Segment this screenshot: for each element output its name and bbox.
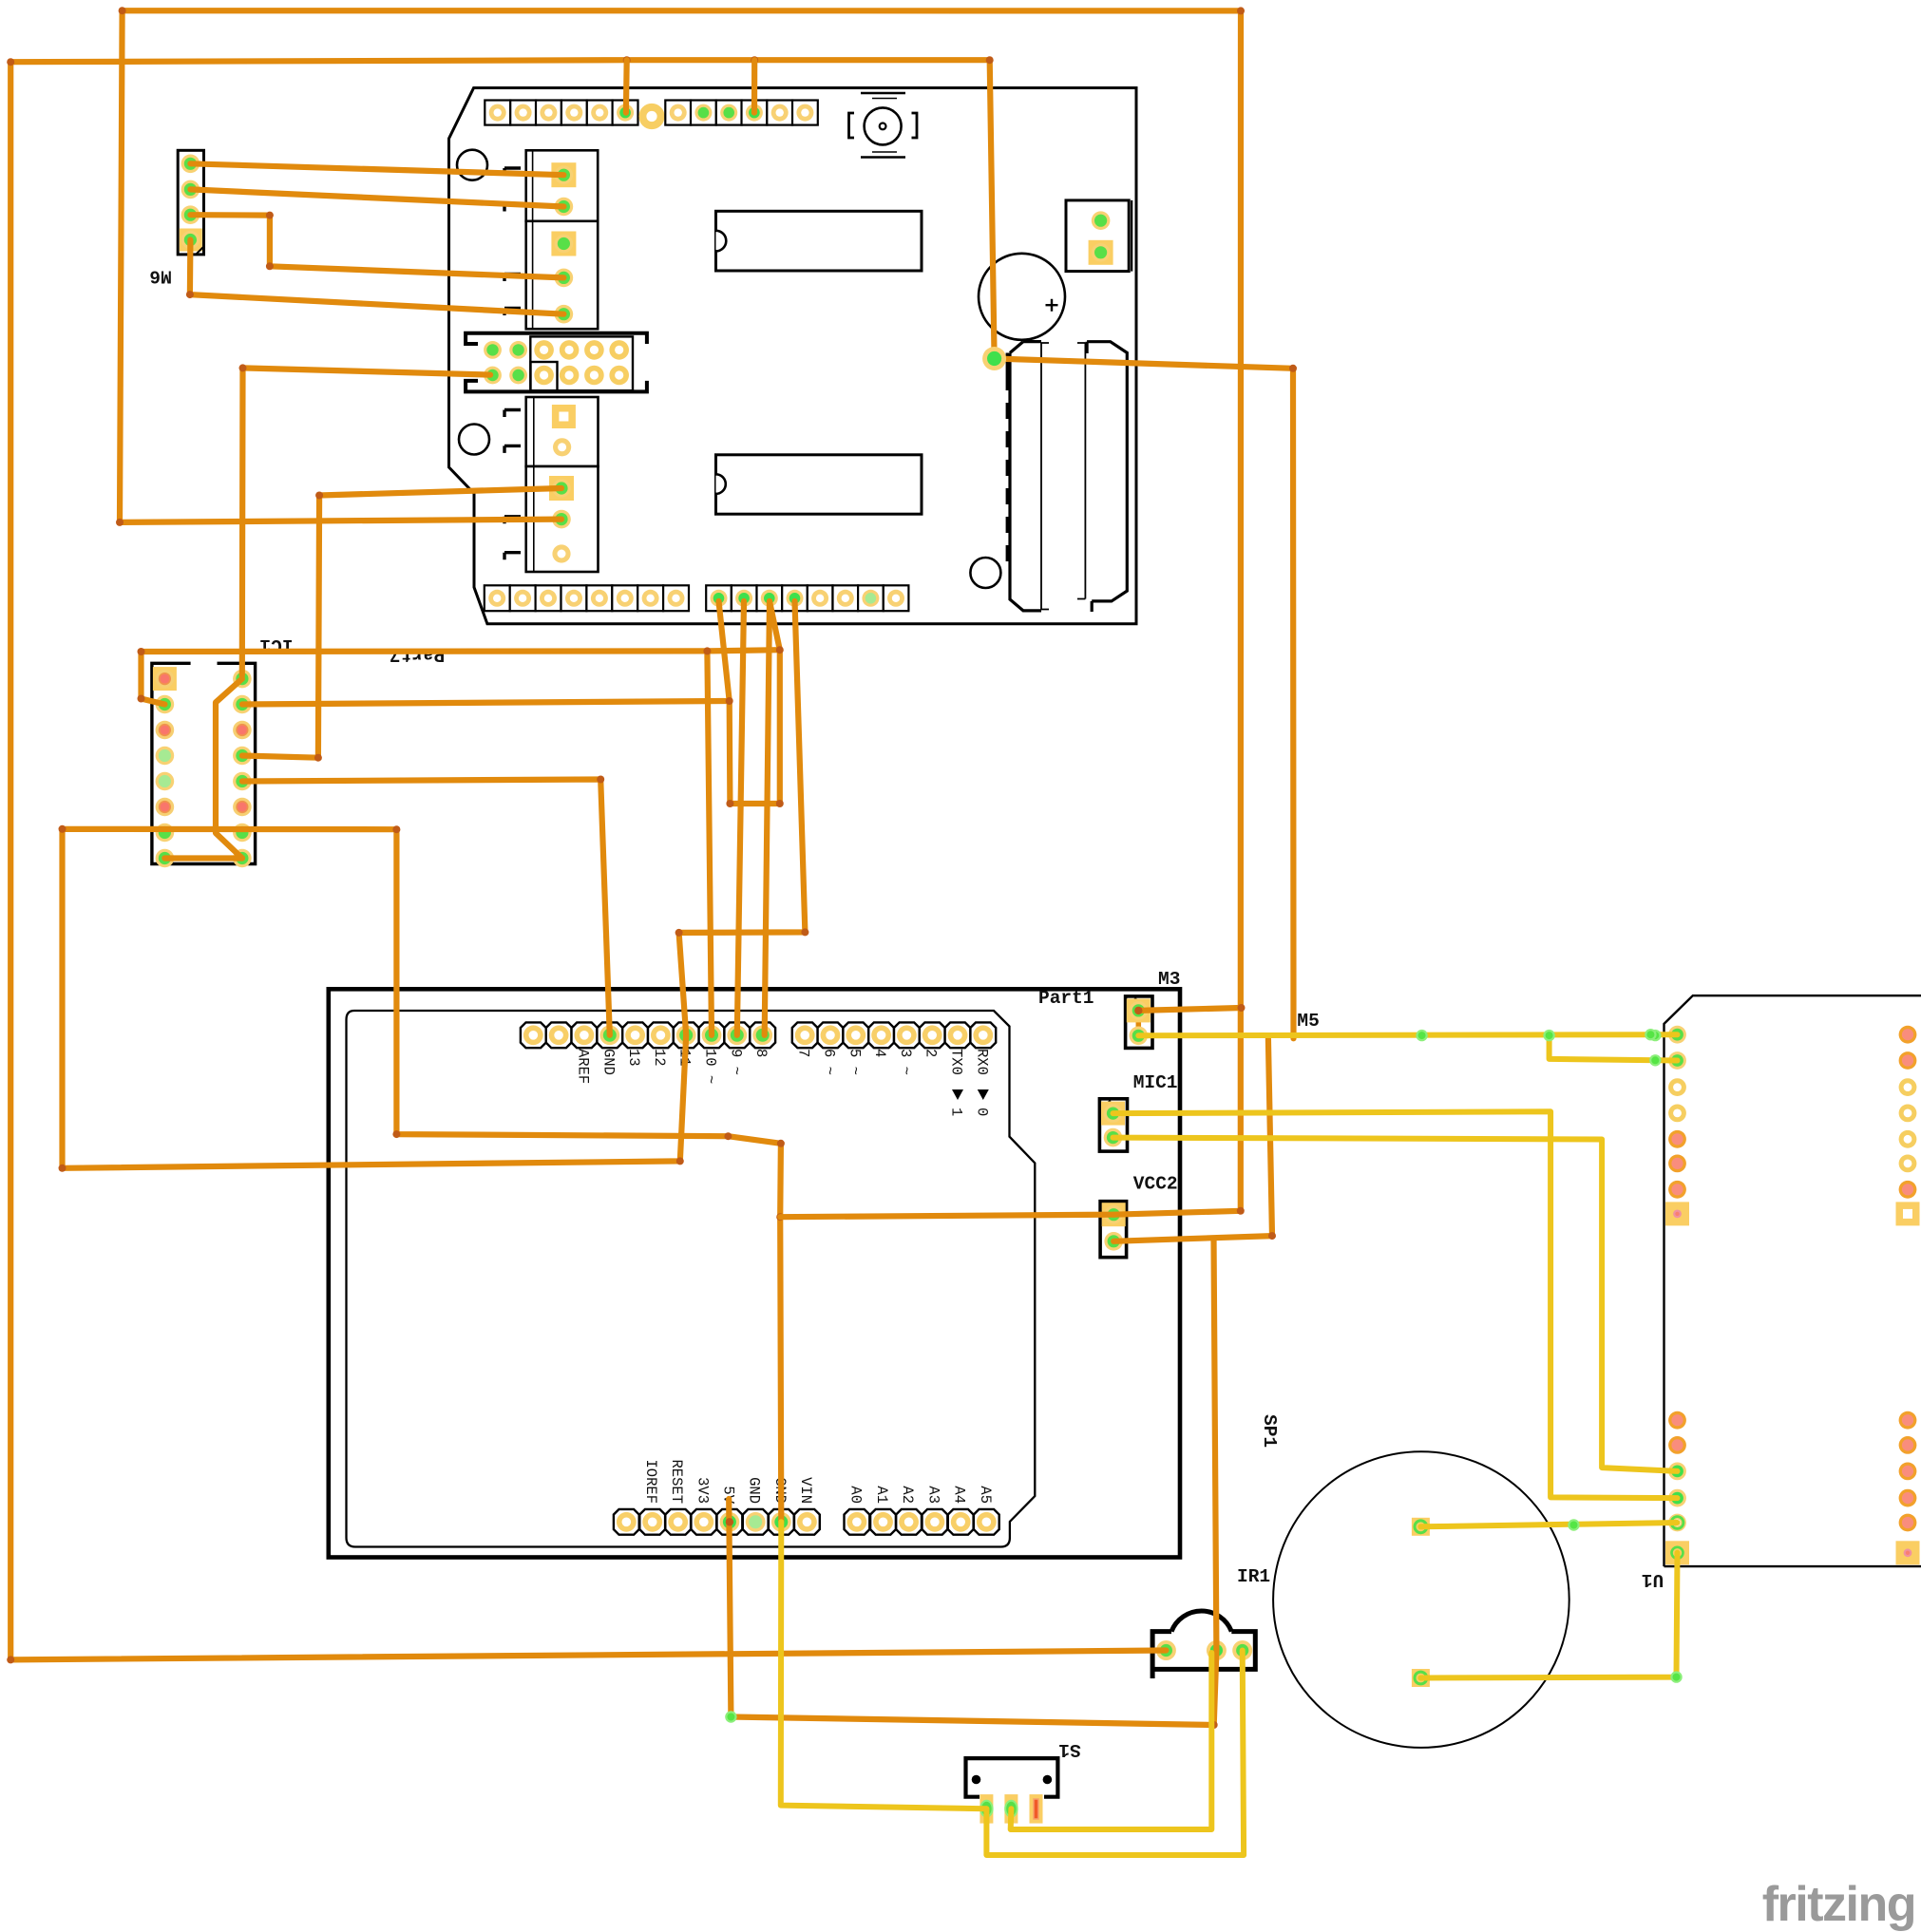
svg-text:A3: A3: [924, 1486, 941, 1504]
svg-text:3 ~: 3 ~: [897, 1049, 914, 1075]
RX triangle marker: [978, 1089, 989, 1100]
svg-text:MIC1: MIC1: [1133, 1072, 1178, 1093]
svg-text:IOREF: IOREF: [642, 1459, 659, 1504]
wire end dots on pads: [726, 1518, 733, 1525]
svg-text:VCC2: VCC2: [1133, 1174, 1178, 1195]
dashed silk line near cap: [1006, 353, 1009, 375]
svg-text:5 ~: 5 ~: [846, 1049, 863, 1075]
lower terminal pads: [552, 405, 576, 428]
svg-text:SP1: SP1: [1259, 1414, 1280, 1448]
2x5 female header bracket outline: [466, 333, 647, 392]
IC1 left pads: [156, 670, 175, 689]
svg-text:10 ~: 10 ~: [702, 1049, 719, 1084]
IR receiver IR1 outline: [1152, 1611, 1255, 1678]
speaker SP1 circle: [1273, 1451, 1569, 1748]
svg-text:M5: M5: [1297, 1011, 1319, 1032]
svg-text:RESET: RESET: [668, 1459, 685, 1504]
wire M6-1 to terminal: [190, 163, 563, 175]
U1 left pad column lower: [1668, 1411, 1686, 1430]
wire IC1-R1 to 2x5 header pad: [242, 368, 490, 675]
wire branch to shield top pad6: [623, 60, 630, 112]
M3 internal stub wire: [1136, 1011, 1142, 1035]
wire S1-2 to IR1-2: [1011, 1653, 1212, 1829]
svg-text:9 ~: 9 ~: [727, 1049, 744, 1075]
header strip silhouette left: [1010, 342, 1041, 611]
wire GND to S1-1: [781, 1522, 987, 1809]
board Part1 inner outline: [347, 1011, 1036, 1547]
wire net M3-1 top loop to lower terminal: [120, 10, 1241, 1215]
wire branch to M3-1: [1138, 1008, 1241, 1011]
wire MIC1-1 to U1: [1113, 1111, 1678, 1498]
IC1 right pads: [233, 670, 252, 689]
S1 dot left: [972, 1775, 981, 1785]
svg-text:M3: M3: [1158, 969, 1180, 990]
DIP IC U-bottom on shield: [716, 455, 922, 514]
wire S1-1 to IR1-3: [986, 1651, 1244, 1856]
wire IC1 internal jumper: [216, 679, 242, 859]
wire cap pad to M5 junction: [995, 359, 1294, 1039]
svg-text:A4: A4: [951, 1486, 968, 1504]
board U1 outline: [1664, 995, 1921, 1566]
mounting hole mid-left: [459, 425, 489, 455]
wire IC1-R4 to lower terminal: [242, 488, 561, 758]
wire IC1 bottom row link: [164, 855, 242, 861]
svg-text:IR1: IR1: [1237, 1566, 1270, 1587]
header M6 outline: [178, 150, 203, 255]
svg-text:A1: A1: [873, 1486, 890, 1504]
board Part7 outline (motor shield): [449, 88, 1137, 624]
shield bottom pad row group2 (8 squares): [706, 585, 732, 611]
junction rings on yellow nets: [1416, 1030, 1427, 1041]
svg-text:A2: A2: [899, 1486, 916, 1504]
header MIC1 outline: [1099, 1099, 1127, 1151]
svg-text:S1: S1: [1058, 1739, 1080, 1760]
svg-text:A5: A5: [977, 1486, 994, 1504]
DC barrel jack footprint: [861, 92, 905, 95]
svg-text:TX0: TX0: [948, 1049, 965, 1075]
header M6 pin1 square: [180, 229, 202, 252]
screw terminal upper block2: [526, 221, 599, 329]
header VCC2 outline: [1100, 1202, 1127, 1258]
header VCC2 pads: [1102, 1203, 1126, 1226]
terminal tick marks lower: [504, 410, 521, 418]
svg-text:12: 12: [651, 1049, 668, 1067]
wire M6-3 to terminal: [190, 215, 563, 277]
svg-text:Part7: Part7: [390, 644, 446, 665]
header M6 pads: [181, 155, 200, 174]
shield top pad row group1 (6 square pads): [485, 101, 510, 125]
screw terminal upper block1: [526, 150, 599, 221]
S1 slot pads: [980, 1794, 993, 1824]
U1 right pad column lower: [1899, 1411, 1917, 1430]
svg-text:AREF: AREF: [574, 1049, 591, 1084]
speaker SP1 pad1: [1412, 1518, 1430, 1536]
wire net IC1-L2 / shield pads / pin10: [142, 650, 780, 704]
shield bottom pad row group1 (8 squares): [485, 585, 510, 611]
mounting hole top-left: [457, 150, 487, 180]
screw terminal lower block1: [526, 397, 599, 466]
Arduino digital header pads (10): [521, 1022, 546, 1048]
header M3 pads: [1127, 998, 1151, 1022]
wire IC1-R5 to Arduino GND13: [242, 780, 610, 1035]
wire branch VCC2-2 down to IR1-2 and 5V: [729, 1239, 1216, 1725]
screw terminal lower block2: [526, 466, 599, 572]
wire shield-P2 to pin9: [737, 601, 744, 1035]
IR1 pads: [1156, 1640, 1176, 1660]
svg-text:1: 1: [948, 1108, 965, 1116]
svg-text:7: 7: [795, 1049, 812, 1057]
svg-text:GND: GND: [746, 1477, 763, 1504]
svg-text:4: 4: [871, 1049, 888, 1057]
header M3 outline: [1126, 996, 1152, 1049]
switch S1 outline: [966, 1758, 1058, 1797]
svg-text:A0: A0: [846, 1486, 864, 1504]
U1 right pad column upper: [1899, 1026, 1917, 1044]
cap pad green (shield bottom-right): [982, 347, 1006, 370]
shield top pad row group2 (6 square pads): [665, 101, 691, 125]
terminal tick marks upper: [504, 168, 521, 176]
speaker SP1 pad2: [1412, 1669, 1430, 1687]
wire MIC1-2 to U1: [1113, 1138, 1678, 1471]
TX triangle marker: [952, 1089, 963, 1100]
Arduino power header pads (8): [614, 1509, 639, 1535]
board Part1 outer rect (Arduino Uno): [329, 989, 1180, 1557]
S1 dot right: [1043, 1775, 1053, 1785]
2x5 header left 2x2 green pads: [484, 341, 502, 359]
2x5 header octagon female block: [530, 336, 633, 390]
IC1 outline (DIP-16): [152, 663, 256, 863]
svg-text:M6: M6: [149, 266, 171, 287]
wire VCC2-2 to M5 junction and IR1: [1113, 1039, 1272, 1241]
wire branch to shield top pad10: [751, 60, 757, 112]
shield top big donut pad: [638, 104, 664, 129]
electrolytic capacitor outline on shield: [979, 254, 1065, 340]
DIP IC U-top on shield: [716, 211, 922, 271]
svg-text:0: 0: [973, 1108, 990, 1116]
svg-text:RX0: RX0: [973, 1049, 990, 1075]
wire VCC2-1 left branch: [780, 1215, 1113, 1218]
svg-text:8: 8: [752, 1049, 770, 1057]
wire M5 branch to U1-2: [1550, 1035, 1678, 1060]
2pin power connector on shield: [1066, 200, 1129, 272]
svg-text:3V3: 3V3: [694, 1477, 711, 1504]
IC1 pin1 square: [153, 667, 177, 691]
svg-text:U1: U1: [1642, 1569, 1664, 1590]
junction green ring at 5V corner: [725, 1711, 736, 1722]
Arduino digital header pads (8): [792, 1022, 818, 1048]
wire far-left loop to cap pad and IR1: [10, 60, 1166, 1659]
wire SP1-2 to U1 square pad: [1420, 1553, 1677, 1678]
svg-text:fritzing: fritzing: [1762, 1877, 1915, 1932]
svg-text:13: 13: [625, 1049, 642, 1067]
U1 left pad column upper: [1668, 1026, 1686, 1044]
wire M6-4 to terminal: [190, 240, 564, 314]
wire SP1-1 to U1: [1420, 1523, 1677, 1526]
svg-text:GND: GND: [599, 1049, 617, 1075]
header strip silhouette right: [1087, 342, 1127, 612]
wire GND bus P4 pin11 row7 5V-GND loop: [63, 601, 806, 1522]
wire M5 yellow M3-2 to U1-1: [1138, 1034, 1677, 1035]
header MIC1 pads: [1101, 1102, 1125, 1126]
svg-text:6 ~: 6 ~: [821, 1049, 838, 1075]
Arduino analog header pads (6): [845, 1509, 870, 1535]
svg-text:2: 2: [922, 1049, 940, 1057]
upper terminal pads: [551, 162, 576, 187]
svg-text:VIN: VIN: [797, 1477, 814, 1504]
mounting hole bottom-right: [970, 558, 1000, 588]
wire shield-P3 to pin8: [765, 601, 770, 1035]
wire M6-2 to terminal: [190, 189, 563, 206]
svg-text:Part1: Part1: [1038, 988, 1094, 1009]
